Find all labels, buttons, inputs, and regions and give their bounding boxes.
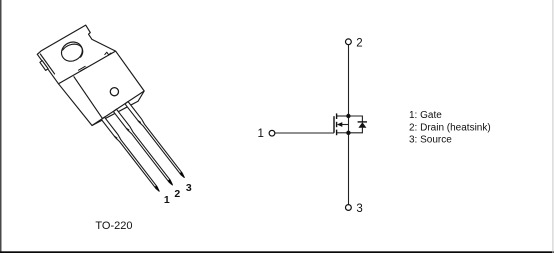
lead 1 tip — [155, 185, 159, 191]
lead 2 shoulder mark — [126, 128, 129, 130]
svg-text:2: 2 — [174, 188, 180, 200]
svg-text:1: Gate: 1: Gate — [409, 110, 442, 121]
mold circle on body face — [110, 88, 118, 96]
body step tick marks — [79, 66, 88, 71]
lead 1 — [101, 117, 159, 191]
tab left edge — [37, 54, 58, 84]
source junction dot — [346, 131, 350, 135]
lead 3 tip — [180, 172, 184, 178]
frame right border — [552, 0, 553, 253]
diode triangle — [358, 122, 366, 128]
frame bottom border — [0, 251, 554, 253]
mosfet channel segment bottom — [336, 130, 338, 136]
svg-text:3: 3 — [356, 203, 362, 215]
svg-text:3: Source: 3: Source — [409, 135, 452, 146]
TO-220 tab fill — [37, 25, 115, 84]
lead 3 shoulder mark — [138, 121, 141, 123]
wire pin1 to gate — [275, 132, 334, 134]
mosfet body arrow — [337, 122, 342, 127]
body bottom front edge E1 (over leads) — [92, 91, 144, 126]
pin2 terminal circle — [346, 39, 352, 45]
svg-text:3: 3 — [186, 182, 192, 194]
leads — [101, 102, 184, 192]
mosfet top link drain — [337, 115, 349, 117]
pin3 terminal circle — [346, 205, 352, 211]
lead 2 — [113, 109, 172, 185]
mosfet channel segment top — [336, 113, 338, 119]
tab left notch stake — [40, 61, 48, 71]
drain junction dot — [346, 114, 350, 118]
wire drain junction to source junction — [348, 116, 350, 133]
svg-text:TO-220: TO-220 — [95, 220, 132, 232]
diode cathode bar — [358, 121, 367, 123]
mosfet body link — [342, 124, 349, 126]
mosfet bottom link source — [337, 132, 349, 134]
svg-text:2: Drain (heatsink): 2: Drain (heatsink) — [409, 123, 491, 134]
lead 1 shoulder mark — [114, 136, 117, 138]
body edge zigzag near top corner — [105, 52, 111, 55]
diode branch wires — [349, 116, 363, 133]
wire pin2 to drain junction — [348, 45, 350, 116]
mosfet gate bar — [333, 116, 335, 133]
tab hole inner thickness arc — [63, 44, 83, 57]
body silhouette — [59, 51, 145, 125]
body front-left edge — [74, 77, 103, 119]
lead 2 tip — [168, 179, 172, 185]
svg-text:1: 1 — [164, 194, 170, 206]
lead 3 — [125, 102, 184, 178]
mosfet channel segment middle — [336, 122, 338, 127]
legend text — [409, 110, 491, 146]
frame left border — [0, 0, 2, 253]
pin1 terminal circle — [269, 130, 275, 136]
tab hole outer — [58, 38, 86, 64]
wire source junction to pin3 — [348, 133, 350, 205]
svg-text:1: 1 — [258, 128, 264, 140]
tab thickness inner line — [40, 54, 54, 74]
tab visible outline — [37, 25, 115, 54]
svg-text:2: 2 — [356, 37, 362, 49]
lead pin labels — [164, 182, 192, 206]
